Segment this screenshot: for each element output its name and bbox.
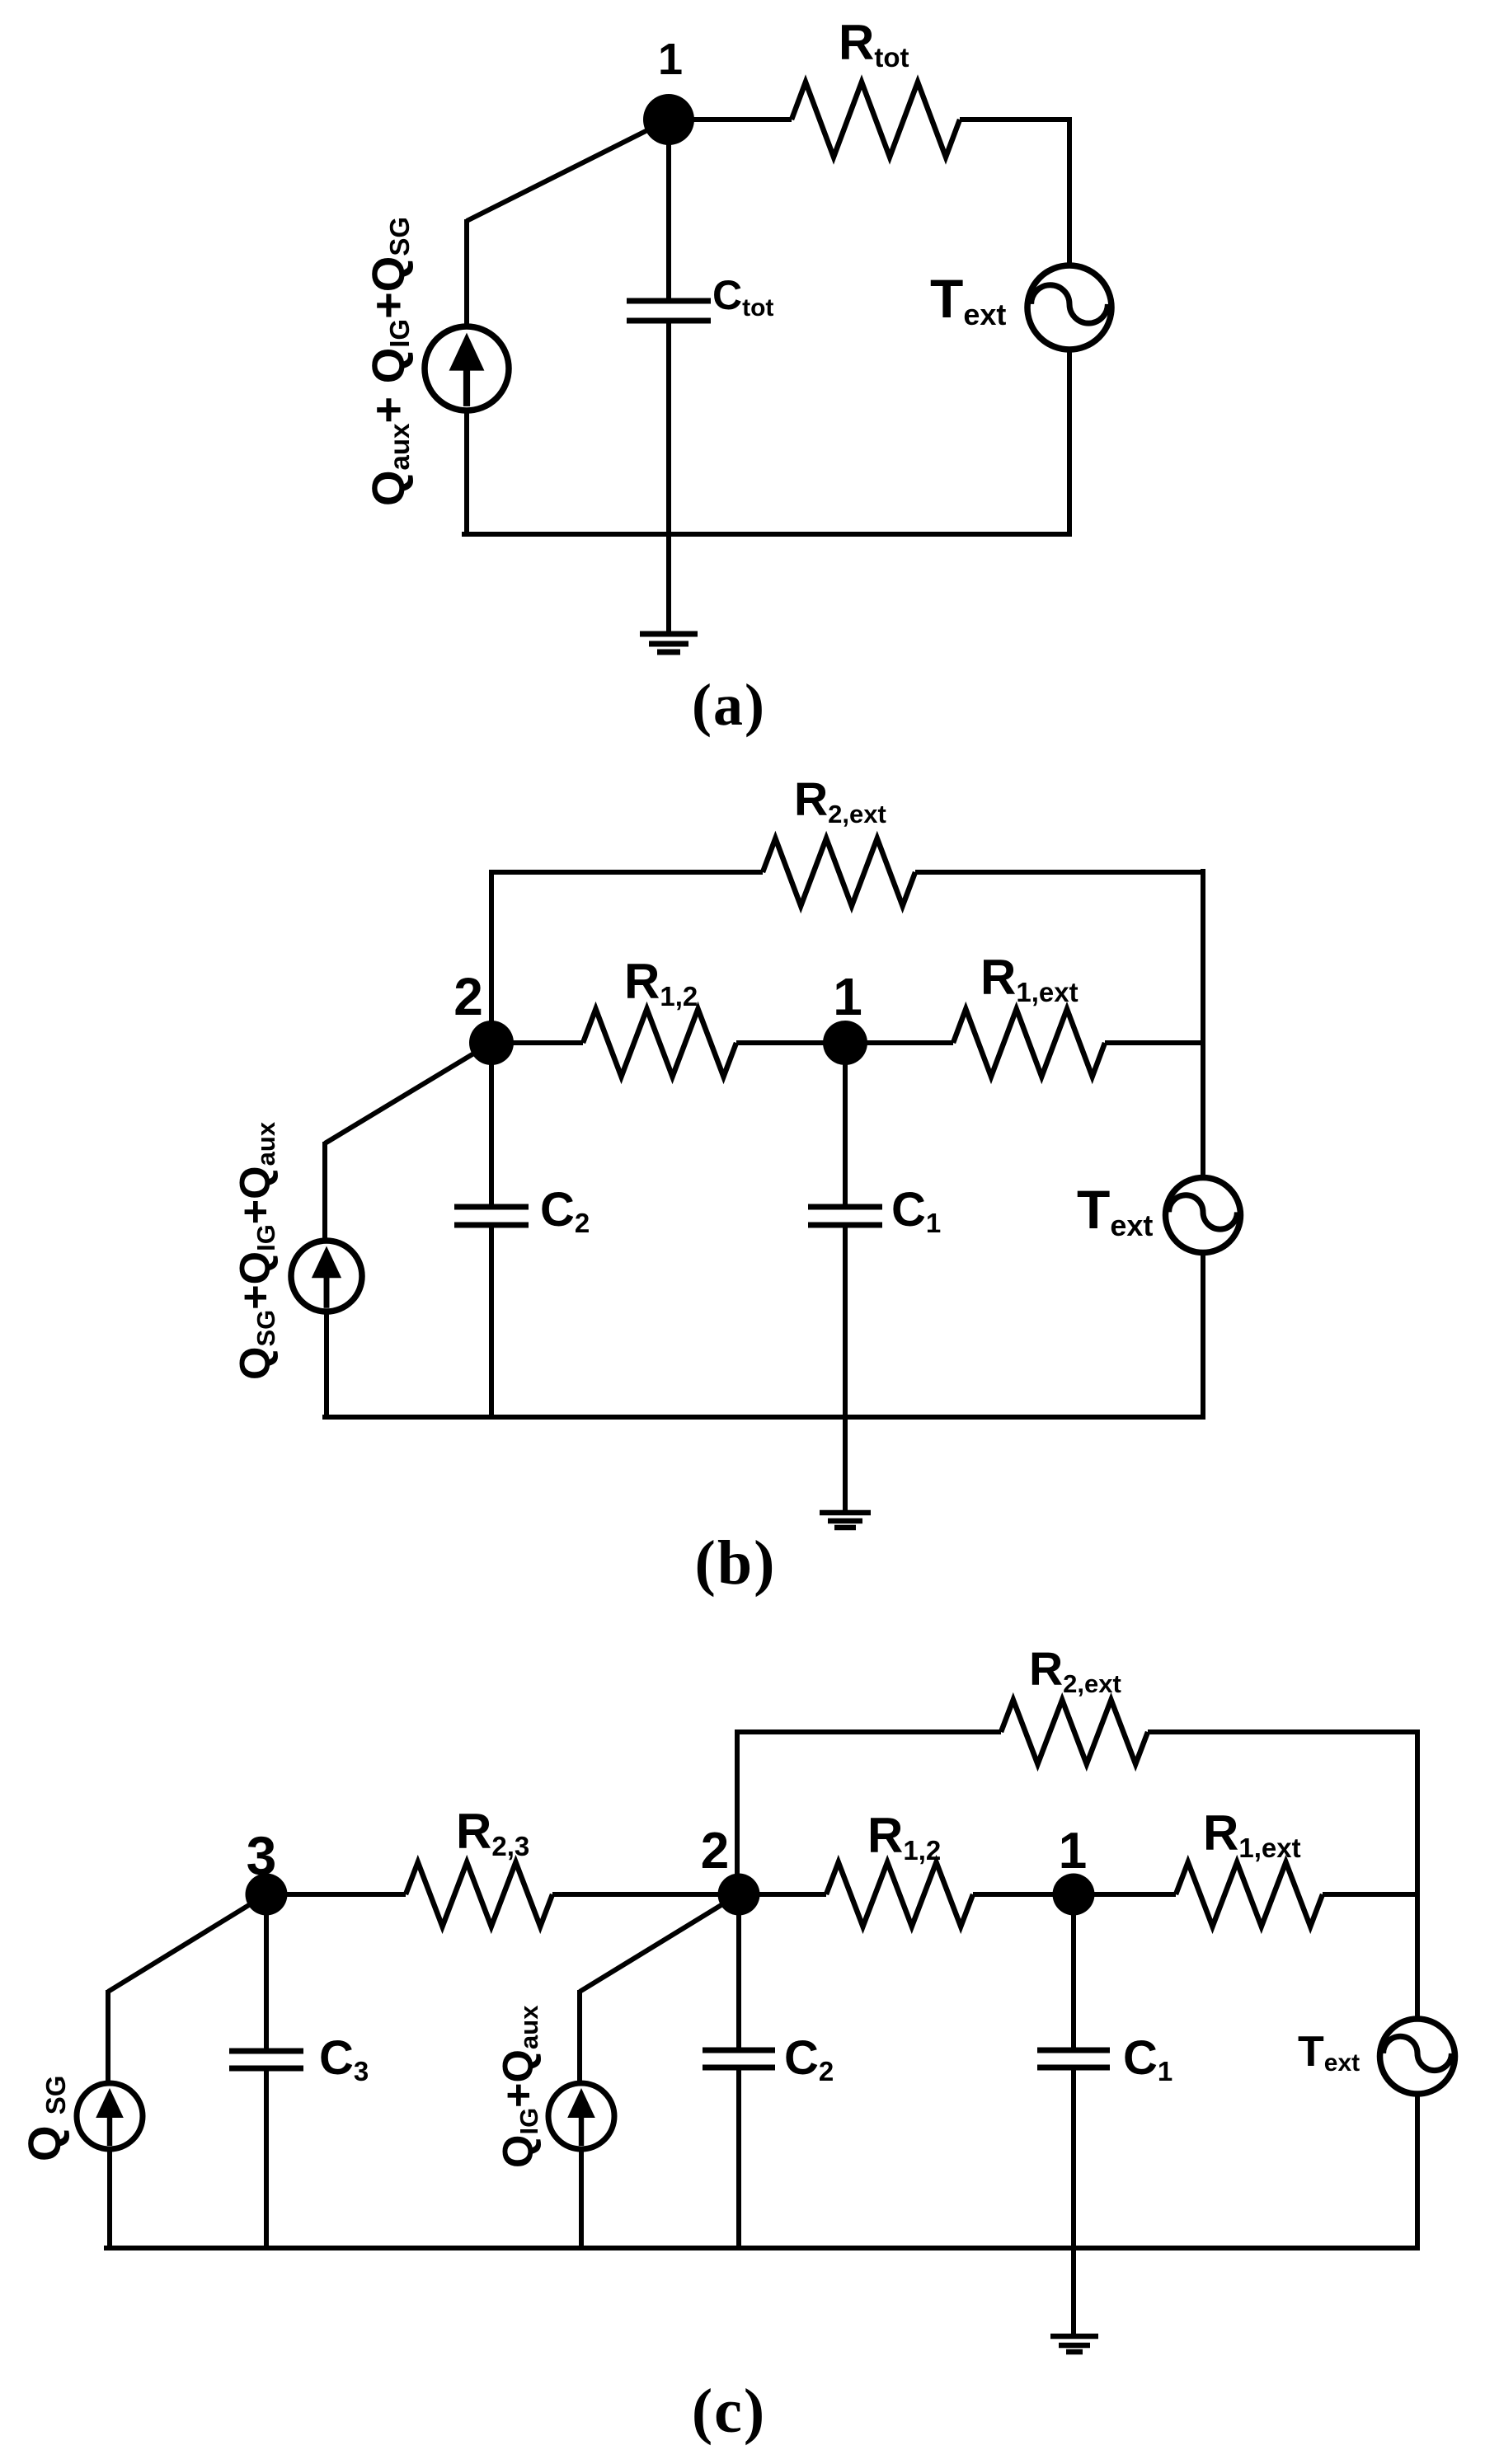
wire top right (b) — [915, 870, 1205, 875]
wire node2 up to top (b) — [489, 870, 494, 1022]
node 3 — [246, 1874, 288, 1916]
wire node2 to R12 — [491, 1040, 583, 1045]
ground (a) — [640, 634, 698, 652]
wire top left (b) — [491, 870, 763, 875]
ground (b) — [820, 1513, 871, 1528]
svg-text:QIG​+Qaux​: QIG​+Qaux​ — [495, 2005, 543, 2168]
capacitor C1 (b) — [808, 1207, 882, 1225]
wire QSG source bottom lead — [107, 2150, 112, 2250]
wire top left (c) — [737, 1729, 1001, 1734]
svg-text:(c): (c) — [692, 2377, 766, 2446]
wire bottom (c) — [104, 2246, 1420, 2250]
wire R12 to node1 (c) — [973, 1892, 1074, 1897]
wire QSG source top lead — [106, 1990, 110, 2082]
wire right vertical lower (c) — [1415, 2095, 1420, 2250]
svg-text:Qaux​+ QIG​+QSG​: Qaux​+ QIG​+QSG​ — [362, 217, 415, 506]
wire node1 to C1 — [843, 1043, 848, 1206]
capacitor C1 (c) — [1037, 2050, 1110, 2067]
svg-text:R2,3: R2,3 — [456, 1804, 529, 1861]
current source QSG+QIG+Qaux — [291, 1241, 362, 1312]
wire node2 to C2 (c) — [736, 1894, 741, 2049]
wire right vertical upper (b) — [1201, 869, 1205, 1177]
svg-text:C2: C2 — [784, 2031, 834, 2086]
capacitor C2 (c) — [703, 2050, 775, 2067]
node 2 (b) — [469, 1021, 514, 1065]
wire source bottom lead — [464, 408, 469, 537]
wire node3 to R23 — [266, 1892, 406, 1897]
current source QSG — [77, 2083, 143, 2149]
wire right vertical upper — [1067, 117, 1072, 266]
wire node1 to R1ext (c) — [1074, 1892, 1176, 1897]
node 1 (a) — [643, 94, 694, 145]
svg-text:R1,ext: R1,ext — [980, 950, 1079, 1007]
node 1 (c) — [1053, 1874, 1095, 1916]
wire node1 to R1ext — [845, 1040, 953, 1045]
resistor R12 (c) — [826, 1862, 973, 1927]
wire diagonal node2 to source (b) — [325, 1043, 491, 1143]
wire C1 to ground (b) — [843, 1226, 848, 1511]
wire QIG source top lead — [577, 1990, 582, 2082]
svg-text:Rtot: Rtot — [839, 15, 909, 73]
svg-text:2: 2 — [453, 967, 483, 1026]
wire node1 to C1 (c) — [1071, 1894, 1076, 2049]
wire QIG source bottom lead — [579, 2150, 584, 2250]
wire right vertical upper (c) — [1415, 1729, 1420, 2019]
wire diagonal node1 to source — [467, 120, 669, 221]
wire C2 to bottom — [489, 1226, 494, 1416]
wire node1 to Ctot — [666, 120, 671, 300]
svg-text:C2: C2 — [540, 1183, 590, 1238]
wire diagonal node3 to QSG source — [108, 1894, 266, 1992]
wire Ctot to ground — [666, 321, 671, 631]
wire bottom (b) — [322, 1415, 1205, 1420]
wire top right (c) — [1148, 1729, 1420, 1734]
svg-text:C1: C1 — [1123, 2031, 1172, 2086]
wire Rtot to right corner — [960, 117, 1072, 122]
wire node2 up to top (c) — [735, 1729, 740, 1880]
resistor Rtot — [792, 82, 960, 157]
wire C1 to ground (c) — [1071, 2069, 1076, 2334]
wire right vertical lower — [1067, 350, 1072, 537]
wire diagonal node2 to QIG source — [580, 1894, 739, 1992]
wire R1ext to right (c) — [1323, 1892, 1420, 1897]
resistor R1ext (b) — [953, 1009, 1105, 1077]
wire source top lead (b) — [322, 1142, 327, 1240]
resistor R2ext (c) — [1001, 1700, 1148, 1764]
svg-text:1: 1 — [833, 967, 862, 1026]
capacitor Ctot — [627, 301, 711, 321]
svg-text:1: 1 — [658, 35, 683, 84]
svg-text:R1,2: R1,2 — [867, 1808, 941, 1866]
resistor R1ext (c) — [1176, 1862, 1323, 1927]
wire node1 to Rtot — [693, 117, 792, 122]
wire C3 to bottom — [264, 2070, 269, 2248]
svg-text:Ctot: Ctot — [712, 272, 773, 321]
ac source Text (b) — [1166, 1178, 1241, 1253]
wire node2 to C2 — [489, 1043, 494, 1206]
wire C2 to bottom (c) — [736, 2069, 741, 2248]
wire bottom (a) — [462, 532, 1072, 537]
wire source top lead — [464, 219, 469, 329]
svg-text:(b): (b) — [695, 1528, 777, 1598]
ac source Text (c) — [1380, 2019, 1455, 2094]
svg-text:2: 2 — [701, 1823, 729, 1880]
svg-text:C1: C1 — [891, 1183, 941, 1238]
current source QIG+Qaux — [548, 2083, 614, 2149]
svg-text:R2,ext: R2,ext — [794, 773, 886, 828]
wire R23 to node2 — [552, 1892, 739, 1897]
capacitor C2 (b) — [454, 1207, 529, 1225]
wire node3 to C3 — [264, 1894, 269, 2050]
node 1 (b) — [823, 1021, 867, 1065]
resistor R2ext (b) — [763, 838, 915, 906]
capacitor C3 — [229, 2051, 303, 2068]
wire R12 to node1 — [736, 1040, 845, 1045]
ground (c) — [1050, 2336, 1098, 2352]
current source Qaux+QIG+QSG — [425, 326, 509, 411]
ac source Text (a) — [1027, 265, 1111, 350]
resistor R12 (b) — [583, 1009, 736, 1077]
wire right vertical lower (b) — [1201, 1253, 1205, 1420]
svg-text:Text: Text — [1298, 2028, 1360, 2077]
svg-text:QSG​+QIG​+Qaux​: QSG​+QIG​+Qaux​ — [232, 1121, 280, 1380]
wire R1ext to right (b) — [1105, 1040, 1205, 1045]
wire node2 to R12 (c) — [739, 1892, 826, 1897]
wire source bottom lead (b) — [324, 1312, 329, 1420]
svg-text:Q SG​: Q SG​ — [18, 2076, 71, 2161]
svg-text:(a): (a) — [692, 672, 766, 738]
svg-text:C3: C3 — [319, 2031, 369, 2086]
svg-text:Text: Text — [930, 268, 1006, 331]
resistor R23 — [406, 1862, 552, 1927]
svg-text:1: 1 — [1059, 1823, 1087, 1880]
svg-text:R1,2: R1,2 — [624, 954, 698, 1011]
svg-text:R1,ext: R1,ext — [1203, 1805, 1301, 1863]
node 2 (c) — [718, 1874, 760, 1916]
svg-text:Text: Text — [1077, 1179, 1153, 1242]
svg-text:R2,ext: R2,ext — [1029, 1643, 1121, 1698]
